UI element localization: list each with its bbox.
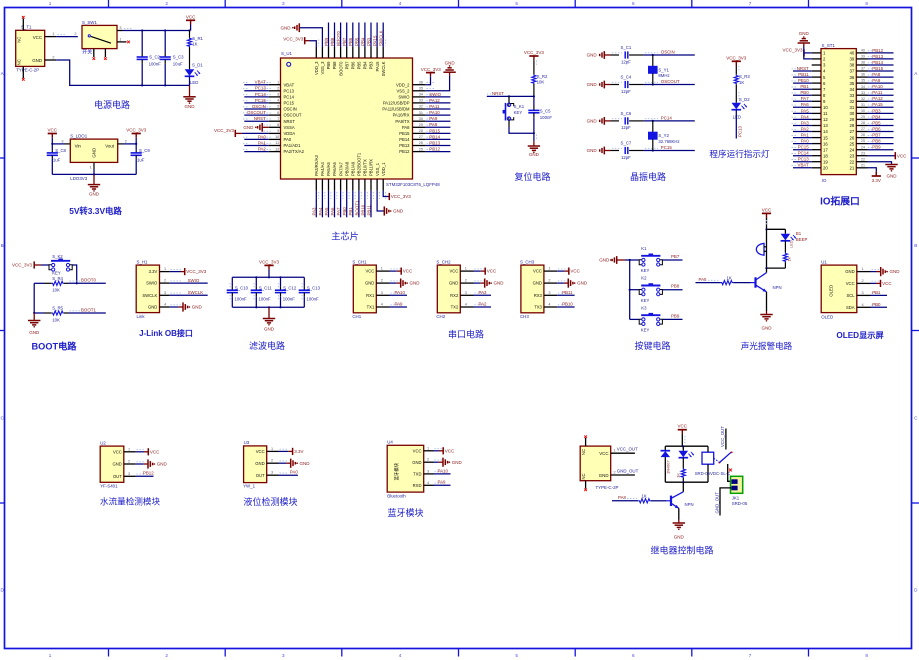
connector S_H1 J-Link body: [136, 265, 159, 313]
ground GND at U3 pin2: [279, 462, 287, 464]
svg-text:7: 7: [749, 1, 752, 6]
svg-text:GND: GND: [410, 281, 421, 286]
svg-text:SWCLK: SWCLK: [379, 30, 384, 46]
svg-text:PA11: PA11: [429, 104, 440, 109]
svg-text:TYPE-C-2P: TYPE-C-2P: [596, 485, 619, 490]
svg-text:PC13: PC13: [255, 86, 267, 91]
svg-text:PB11: PB11: [366, 205, 371, 216]
svg-text:PA5: PA5: [699, 277, 708, 282]
svg-text:S_K2: S_K2: [52, 254, 63, 259]
svg-text:PA8: PA8: [402, 125, 410, 130]
wire and net label PB15 (IO right pin 37): [868, 70, 894, 72]
svg-text:PB3: PB3: [369, 61, 374, 70]
svg-text:24: 24: [850, 147, 855, 152]
svg-text:CH3: CH3: [520, 314, 529, 319]
svg-text:1uF: 1uF: [53, 157, 61, 162]
svg-text:S_Y2: S_Y2: [658, 133, 669, 138]
svg-text:2: 2: [128, 460, 130, 464]
svg-text:VCC_3V3: VCC_3V3: [524, 50, 545, 55]
wire and net label GND_OUT (T2 GND): [611, 474, 635, 476]
power 3.3V at U3 pin1: [279, 450, 289, 452]
svg-text:VCC: VCC: [403, 269, 413, 274]
wire and net label PB7 (IO right pin 26): [868, 137, 894, 139]
svg-text:OLED显示屏: OLED显示屏: [836, 331, 883, 340]
wire and net label PA10 (U4 TXD): [434, 473, 451, 475]
resistor 1K below alarm LED: [784, 241, 786, 253]
ground GND of relay circuit: [678, 508, 680, 519]
wire and net label PC13 (IO left pin 19): [793, 161, 812, 163]
resistor 1K at alarm base: [721, 281, 733, 285]
svg-text:LED: LED: [789, 240, 794, 248]
svg-text:4: 4: [465, 303, 467, 307]
svg-text:GND: GND: [157, 462, 168, 467]
power VCC at CH2 pin1: [474, 270, 481, 272]
svg-text:PB6: PB6: [872, 126, 881, 131]
svg-text:4: 4: [548, 303, 550, 307]
svg-text:S_R1: S_R1: [192, 36, 203, 41]
svg-text:VCC: VCC: [762, 207, 772, 212]
svg-text:12: 12: [275, 147, 279, 151]
svg-text:PA8: PA8: [618, 495, 627, 500]
svg-text:PB11: PB11: [562, 290, 573, 295]
svg-text:NPN: NPN: [773, 285, 782, 290]
capacitor S_C7 12pF: [611, 150, 620, 152]
wire and net label PA1 (IO left pin 15): [793, 137, 812, 139]
svg-text:PA3: PA3: [312, 207, 317, 216]
svg-text:PB12: PB12: [399, 149, 410, 154]
svg-text:KEY: KEY: [641, 298, 650, 303]
svg-text:BOOT1: BOOT1: [354, 200, 359, 215]
wire and net label PB3 (IO right pin 30): [868, 112, 894, 114]
wire and net label PB11 at CH3 RX: [557, 294, 575, 296]
ground GND of BOOT circuit: [33, 313, 35, 321]
svg-text:S_D2: S_D2: [739, 97, 750, 102]
svg-text:GND: GND: [412, 460, 421, 465]
svg-text:B: B: [1, 243, 4, 248]
svg-text:B1: B1: [796, 231, 802, 236]
svg-text:VCC: VCC: [445, 448, 455, 453]
svg-text:BOOT0: BOOT0: [336, 31, 341, 46]
capacitor S_C12 100nF: [280, 277, 282, 286]
svg-text:SWIO: SWIO: [429, 92, 441, 97]
wire and net label NRST (MCU left pin 7): [244, 120, 268, 122]
svg-text:30: 30: [419, 117, 423, 121]
svg-text:VCC: VCC: [570, 269, 580, 274]
svg-text:PA12: PA12: [872, 96, 883, 101]
svg-text:PA2: PA2: [801, 126, 810, 131]
svg-text:29: 29: [419, 123, 423, 127]
wire NRST net: [487, 95, 534, 97]
svg-text:10: 10: [823, 105, 828, 110]
svg-text:3: 3: [277, 93, 279, 97]
svg-text:PB14: PB14: [429, 134, 440, 139]
power VCC at CH3 pin1: [557, 270, 564, 272]
pin SW1.1 unconnected: [117, 41, 127, 43]
svg-text:PA8: PA8: [872, 72, 881, 77]
svg-text:NC: NC: [17, 59, 22, 65]
svg-text:S_D1: S_D1: [192, 63, 203, 68]
svg-text:U4: U4: [387, 440, 393, 445]
svg-text:PB14: PB14: [399, 137, 410, 142]
svg-text:OLED: OLED: [821, 314, 833, 319]
wire and net label BOOT1: [69, 312, 106, 314]
ground GND at MCU VSSA pin: [262, 126, 269, 128]
svg-text:GND: GND: [587, 148, 598, 153]
svg-text:5: 5: [515, 653, 518, 658]
svg-text:5: 5: [277, 105, 279, 109]
svg-text:PA10: PA10: [395, 290, 406, 295]
svg-text:1: 1: [128, 447, 130, 451]
svg-text:1: 1: [271, 447, 273, 451]
wire and net label OSCIN: [644, 54, 695, 56]
diode D2 1N4007 (flyback): [664, 446, 666, 451]
wire and net label PB0 (IO left pin 8): [793, 94, 812, 96]
svg-text:GND: GND: [599, 473, 609, 478]
svg-text:TYPE-C-2P: TYPE-C-2P: [16, 67, 39, 72]
svg-text:PC14: PC14: [661, 115, 673, 120]
left bus of BOOT circuit: [33, 283, 35, 313]
svg-text:1K: 1K: [675, 473, 680, 478]
filter bottom rail: [232, 306, 304, 308]
svg-text:4: 4: [164, 303, 166, 307]
svg-text:OUT: OUT: [113, 474, 122, 479]
svg-text:10: 10: [275, 135, 279, 139]
svg-text:GND: GND: [533, 281, 542, 286]
svg-text:VBAT: VBAT: [284, 82, 295, 87]
svg-text:PB13: PB13: [399, 143, 410, 148]
wire and net label PC14 (MCU left pin 3): [244, 96, 268, 98]
svg-text:PC13: PC13: [738, 125, 743, 137]
svg-text:14: 14: [823, 129, 828, 134]
wire and rotated net label BOOT0 (MCU top): [340, 23, 342, 48]
ground GND of power circuit: [189, 85, 191, 96]
svg-text:100nF: 100nF: [259, 296, 272, 301]
svg-text:水流量检测模块: 水流量检测模块: [100, 496, 161, 507]
svg-text:S_C1: S_C1: [621, 45, 632, 50]
svg-text:SWCLK: SWCLK: [142, 293, 157, 298]
svg-text:3: 3: [164, 291, 166, 295]
svg-text:39: 39: [861, 55, 865, 59]
svg-text:PA12: PA12: [429, 98, 440, 103]
capacitor S_C6 12pF: [611, 120, 620, 122]
svg-text:VCC_3V3: VCC_3V3: [214, 128, 235, 133]
svg-text:1: 1: [164, 267, 166, 271]
wire key K2 to BOOT0 row: [72, 265, 76, 283]
svg-text:NRST: NRST: [797, 66, 809, 71]
svg-text:PB1: PB1: [872, 290, 881, 295]
svg-text:38: 38: [861, 61, 865, 65]
svg-text:10K: 10K: [537, 80, 545, 85]
wire and net label PB8 (key K2): [663, 289, 683, 291]
svg-text:S_CH3: S_CH3: [520, 259, 535, 264]
wire and net label PA4 (IO left pin 12): [793, 118, 812, 120]
bottom rail of LDO circuit: [52, 173, 136, 175]
svg-text:5V转3.3V电路: 5V转3.3V电路: [69, 206, 122, 216]
svg-text:2: 2: [165, 653, 168, 658]
ground GND at OLED pin1: [871, 271, 877, 273]
key S_K2 KEY: [49, 265, 52, 270]
wire and rotated net label PB8 (MCU top): [334, 23, 336, 48]
pin SW1.3: [117, 30, 123, 32]
svg-text:PB11: PB11: [798, 72, 809, 77]
svg-text:1: 1: [465, 267, 467, 271]
svg-text:S_K1: S_K1: [514, 104, 525, 109]
wire and net label PA8 (IO right pin 36): [868, 76, 894, 78]
svg-text:NC: NC: [581, 449, 586, 455]
svg-text:S_C12: S_C12: [283, 285, 297, 290]
svg-text:OSCOUT: OSCOUT: [661, 79, 680, 84]
svg-text:OSCIN: OSCIN: [284, 107, 297, 112]
wire and net label PA10 (IO right pin 34): [868, 88, 894, 90]
wire and net label PB9 (key K3): [663, 318, 683, 320]
svg-text:TXD: TXD: [413, 472, 421, 477]
svg-text:1K: 1K: [727, 276, 732, 281]
resistor S_R3 1K: [735, 71, 737, 75]
svg-text:100nF: 100nF: [307, 296, 320, 301]
svg-text:3: 3: [427, 469, 429, 473]
wire and net label VCC_OUT (T2 VCC): [611, 452, 635, 454]
connector S_T1 TYPE-C-2P body: [16, 30, 45, 66]
svg-text:VCC: VCC: [256, 449, 265, 454]
svg-text:11: 11: [275, 141, 279, 145]
svg-text:6: 6: [277, 111, 279, 115]
svg-text:S_C3: S_C3: [173, 55, 184, 60]
svg-text:开关: 开关: [82, 49, 92, 56]
ground GND at MCU VSS_3 pin: [299, 28, 322, 47]
svg-text:29: 29: [861, 115, 865, 119]
svg-text:CH2: CH2: [436, 314, 445, 319]
svg-text:1K: 1K: [642, 493, 647, 498]
svg-text:PB10/TX: PB10/TX: [363, 159, 368, 176]
svg-text:PB12: PB12: [143, 471, 154, 476]
svg-text:PA11/USB/DM: PA11/USB/DM: [382, 107, 410, 112]
svg-text:PA3: PA3: [801, 120, 810, 125]
svg-text:S_C6: S_C6: [621, 111, 632, 116]
frame zone ticks top/bottom: [108, 0, 110, 8]
svg-text:12pF: 12pF: [621, 59, 631, 64]
svg-text:VCC: VCC: [413, 448, 422, 453]
svg-text:PB5: PB5: [354, 37, 359, 46]
pin SW1 bottom pins unconnected: [93, 49, 95, 57]
svg-text:6: 6: [632, 653, 635, 658]
resistor 1K below relay LED: [682, 458, 684, 469]
relay top rail: [665, 445, 708, 447]
svg-text:GND: GND: [148, 305, 157, 310]
svg-text:27: 27: [419, 135, 423, 139]
wire and net label PA0 (IO left pin 16): [793, 143, 812, 145]
svg-text:22: 22: [861, 157, 865, 161]
svg-text:10K: 10K: [52, 288, 60, 293]
svg-text:GND: GND: [185, 104, 196, 109]
svg-text:PA5/A5: PA5/A5: [326, 161, 331, 176]
svg-text:OLED: OLED: [829, 285, 834, 297]
wire and net label OSCIN (MCU left pin 5): [244, 108, 268, 110]
svg-text:GND: GND: [890, 269, 901, 274]
wire and net label PB1 (IO left pin 7): [793, 88, 812, 90]
wire and net label PA1 (MCU left pin 11): [244, 145, 268, 147]
svg-text:PC14: PC14: [255, 92, 267, 97]
svg-text:2: 2: [277, 87, 279, 91]
svg-text:1: 1: [90, 165, 92, 169]
wire T1.2 GND to bottom rail: [56, 60, 189, 85]
wire and net label PB10 at CH3 TX: [557, 306, 575, 308]
svg-text:GND: GND: [587, 53, 598, 58]
wire and net label PA5 (alarm base): [696, 282, 721, 284]
terminal JK1 SRD-05 body: [731, 476, 743, 493]
svg-text:23: 23: [861, 151, 865, 155]
ground GND at MCU VSS_2 pin: [426, 76, 450, 91]
svg-text:S_H1: S_H1: [137, 259, 149, 264]
svg-text:LED: LED: [190, 80, 198, 85]
svg-text:28: 28: [861, 121, 865, 125]
svg-text:23: 23: [850, 153, 855, 158]
svg-text:12pF: 12pF: [621, 155, 631, 160]
capacitor S_C5 100nF: [533, 96, 535, 106]
svg-text:PA12/USB/DP: PA12/USB/DP: [383, 101, 410, 106]
power VCC_3V3 at J-Link pin1: [170, 271, 181, 273]
switch SW1 blade glyph: [88, 35, 90, 37]
svg-text:6: 6: [632, 1, 635, 6]
svg-text:VCC: VCC: [449, 269, 458, 274]
pin LDO GND: [93, 162, 95, 169]
wire and rotated net label PA5 (MCU bottom): [328, 191, 330, 218]
wire and rotated net label PB10 (MCU bottom): [364, 191, 366, 218]
svg-text:PB15: PB15: [399, 131, 410, 136]
svg-text:PA10/RX: PA10/RX: [393, 113, 410, 118]
transistor Q2 NPN of relay: [682, 482, 684, 492]
svg-text:PA3: PA3: [479, 290, 488, 295]
svg-text:1: 1: [614, 449, 616, 453]
svg-text:100nF: 100nF: [235, 296, 248, 301]
ground GND at CH3 pin2: [557, 282, 564, 284]
svg-text:2: 2: [465, 279, 467, 283]
svg-text:RX3: RX3: [534, 293, 543, 298]
svg-text:1: 1: [49, 1, 52, 6]
svg-text:PC15: PC15: [661, 145, 673, 150]
svg-text:PA9: PA9: [429, 116, 438, 121]
svg-text:GND: GND: [887, 174, 898, 179]
svg-text:SWIO: SWIO: [398, 95, 410, 100]
svg-text:SCL: SCL: [846, 293, 855, 298]
wire T1.1 to SW1.2: [56, 36, 78, 38]
svg-text:PB12: PB12: [429, 147, 440, 152]
svg-text:PB13: PB13: [429, 140, 440, 145]
svg-text:35: 35: [850, 81, 855, 86]
svg-text:GND: GND: [281, 25, 292, 30]
wire and net label PA2 (MCU left pin 12): [244, 151, 268, 153]
svg-text:串口电路: 串口电路: [448, 329, 484, 340]
wire and net label PB13 (IO right pin 39): [868, 58, 894, 60]
svg-text:9: 9: [277, 129, 279, 133]
svg-text:PB12: PB12: [872, 48, 883, 53]
wire and rotated net label PB0 (MCU bottom): [346, 191, 348, 218]
wire and net label PB8 (IO right pin 25): [868, 143, 894, 145]
svg-text:PA10: PA10: [429, 110, 440, 115]
svg-text:PA1: PA1: [258, 140, 267, 145]
ground GND of filter circuit: [268, 307, 270, 318]
svg-text:2: 2: [381, 279, 383, 283]
svg-text:GND: GND: [577, 281, 588, 286]
svg-text:PA7: PA7: [801, 96, 810, 101]
power VCC at U4 pin1: [434, 450, 440, 452]
svg-text:VCC: VCC: [897, 153, 907, 158]
wire and net label PB0 (OLED SDA): [871, 306, 888, 308]
wire and net label NRST (IO left pin 4): [793, 70, 812, 72]
wire and net label PB12 (U2 OUT): [136, 475, 154, 477]
svg-text:GND: GND: [674, 535, 685, 540]
svg-text:3: 3: [119, 26, 121, 30]
svg-text:PB8: PB8: [330, 37, 335, 46]
power 3.3V at IO pin21: [868, 168, 877, 172]
wire and rotated net label PB11 (MCU bottom): [370, 191, 372, 218]
svg-text:2: 2: [427, 458, 429, 462]
svg-text:1: 1: [862, 267, 864, 271]
svg-text:S_R2: S_R2: [537, 74, 548, 79]
svg-text:3.3V: 3.3V: [294, 449, 303, 454]
wire and net label VBAT (IO left pin 20): [793, 167, 812, 169]
svg-text:32: 32: [861, 97, 865, 101]
svg-text:BOOT电路: BOOT电路: [32, 341, 78, 352]
svg-text:31: 31: [419, 111, 423, 115]
pin T2 bottom NC: [585, 481, 587, 489]
LED D3 of relay: [682, 446, 684, 451]
svg-text:PB13: PB13: [872, 54, 883, 59]
MCU pin1 indicator dot: [287, 62, 291, 66]
wire and net label OSCOUT: [644, 84, 695, 86]
svg-text:1N4007: 1N4007: [666, 460, 671, 474]
svg-text:32: 32: [850, 99, 855, 104]
wire and net label PB10 (IO left pin 6): [793, 82, 812, 84]
svg-text:VSS_2: VSS_2: [396, 88, 410, 93]
svg-text:PB7: PB7: [671, 254, 680, 259]
svg-text:PA15: PA15: [373, 35, 378, 46]
svg-text:STM32F103C8T6_LQFP48: STM32F103C8T6_LQFP48: [386, 182, 440, 187]
svg-text:PA10: PA10: [438, 468, 449, 473]
module U3 YW_1 body: [244, 446, 267, 483]
svg-text:4: 4: [399, 1, 402, 6]
svg-text:19: 19: [823, 159, 828, 164]
svg-text:100nF: 100nF: [540, 115, 553, 120]
ground GND at CH1 pin2: [390, 282, 397, 284]
svg-text:S_SW1: S_SW1: [82, 20, 97, 25]
key S_K1 KEY (reset button): [508, 96, 510, 103]
svg-text:40: 40: [850, 51, 855, 56]
pin T1.2 GND: [45, 59, 57, 61]
svg-text:25: 25: [419, 147, 423, 151]
svg-text:PA11: PA11: [872, 90, 883, 95]
svg-text:Vout: Vout: [105, 143, 115, 148]
svg-text:PA4: PA4: [318, 207, 323, 216]
wire and net label BOOT0: [69, 282, 106, 284]
capacitor S_C11 100nF: [255, 277, 257, 286]
wire and net label VBAT (MCU left pin 1): [244, 84, 268, 86]
svg-text:8: 8: [865, 653, 868, 658]
svg-text:PA8: PA8: [429, 122, 438, 127]
svg-text:PA0: PA0: [284, 137, 292, 142]
svg-text:2: 2: [164, 279, 166, 283]
svg-text:100nF: 100nF: [149, 61, 162, 66]
svg-text:VCC_OUT: VCC_OUT: [617, 447, 638, 452]
svg-text:3: 3: [862, 291, 864, 295]
svg-text:主芯片: 主芯片: [331, 231, 359, 242]
svg-text:Bluetooth: Bluetooth: [387, 494, 406, 499]
key K3 KEY: [630, 318, 639, 320]
svg-text:S_C8: S_C8: [55, 148, 66, 153]
svg-text:4: 4: [399, 653, 402, 658]
ground GND at IO pin22: [868, 162, 892, 165]
power VCC_3V3 at MCU VDD_1 pin: [383, 191, 389, 197]
wire and net label PA9 (U4 RXD): [434, 484, 451, 486]
